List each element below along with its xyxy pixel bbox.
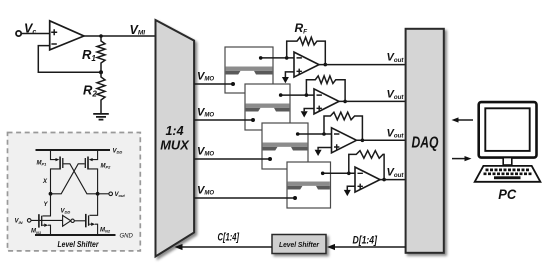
feedback resistor RF3 [324, 112, 362, 140]
ground stub A1 [285, 72, 294, 77]
feedback resistor RF2 [306, 76, 345, 102]
svg-text:GND: GND [120, 233, 134, 239]
svg-text:1:4: 1:4 [165, 124, 183, 138]
wire left node down to MN1 [43, 194, 51, 216]
GND rail [35, 234, 116, 236]
transistor MP2 [85, 150, 97, 194]
node A1 output [324, 63, 328, 67]
wire A1 output to DAQ [319, 64, 406, 66]
svg-text:MP2: MP2 [101, 163, 112, 169]
wire VIN to MN1 gate and inverter [31, 219, 62, 221]
inverter [63, 215, 85, 226]
wire input to op-amp [21, 33, 50, 35]
node A3 output [361, 139, 365, 143]
wire to Vout terminal [98, 193, 109, 195]
memristor device M2 [245, 84, 290, 130]
node Vout dot [96, 192, 100, 196]
ground symbol [93, 114, 109, 120]
DAQ block [406, 29, 444, 253]
inset labels [15, 148, 134, 249]
node A2 output [343, 100, 347, 104]
svg-text:PC: PC [498, 187, 516, 202]
wire M4 to op-amp A4 [323, 172, 355, 174]
level shifter inset dashed box [8, 133, 141, 251]
input terminal Vc [16, 31, 21, 36]
transistor MN2 [86, 214, 98, 235]
memristor device M4 [287, 162, 331, 208]
svg-text:MP1: MP1 [37, 161, 48, 167]
transistor MN1 [39, 214, 51, 235]
PC keyboard [475, 166, 541, 182]
node X dot [49, 192, 53, 196]
svg-text:DAQ: DAQ [412, 134, 439, 151]
wire M3 to op-amp A3 [298, 133, 332, 135]
wire A2 output to DAQ [339, 100, 406, 102]
transistor MP1 [51, 150, 63, 194]
svg-text:VDD: VDD [61, 209, 71, 215]
wire A4 output to DAQ [380, 179, 406, 181]
level shifter box [272, 235, 326, 254]
svg-text:MN2: MN2 [100, 228, 111, 234]
svg-text:VIN: VIN [15, 219, 23, 225]
wire D[1:4] DAQ to level shifter [330, 246, 406, 248]
VDD rail [36, 149, 111, 151]
cross-coupling wire MP2 gate to left node [51, 164, 85, 194]
svg-text:Level Shifter: Level Shifter [279, 240, 320, 249]
wire VMO3 MUX to M3 [194, 158, 270, 160]
wire feedback from minus input [38, 46, 101, 73]
op-amp U1 [50, 21, 84, 50]
op-amp A1 [294, 52, 319, 77]
svg-text:C[1:4]: C[1:4] [218, 232, 240, 244]
op-amp A4 [355, 167, 380, 192]
wire M2 to op-amp A2 [281, 94, 314, 96]
wire VMO2 MUX to M2 [194, 119, 253, 121]
Vout terminal circle [109, 192, 113, 196]
svg-text:D[1:4]: D[1:4] [353, 235, 378, 247]
MUX 1:4 block [156, 20, 195, 257]
memristor device M1 [225, 47, 273, 93]
arrow PC to DAQ [457, 119, 473, 121]
arrow DAQ to PC [452, 158, 466, 160]
wire A3 output to DAQ [357, 139, 406, 141]
node junction R1/R2 [99, 70, 103, 74]
feedback resistor RF1 [287, 37, 326, 64]
PC stand [503, 158, 512, 165]
memristor device M3 [262, 123, 308, 169]
ground stub A2 [304, 109, 314, 112]
svg-text:Vout: Vout [115, 192, 126, 198]
wire right node down to MN2 [90, 194, 98, 216]
wire op-amp output to MUX, node VMI [84, 35, 156, 37]
wire VMO1 MUX to M1 [194, 83, 233, 85]
node A4 output [382, 178, 386, 182]
feedback resistor RF4 [349, 151, 384, 180]
op-amp A3 [332, 128, 357, 153]
ground stub A3 [318, 148, 331, 150]
cross-coupling wire MP1 gate to right node [64, 164, 98, 194]
node junction R1 top [99, 34, 103, 38]
ground stub A4 [347, 186, 355, 190]
wire C[1:4] level shifter to MUX [178, 246, 272, 248]
PC monitor [479, 102, 537, 158]
resistor R1 [97, 36, 105, 72]
wire VMO4 MUX to M4 [194, 197, 295, 199]
VIN terminal circle [27, 219, 31, 223]
svg-text:VDD: VDD [113, 148, 123, 154]
svg-text:Level Shifter: Level Shifter [58, 239, 100, 249]
svg-text:MN1: MN1 [31, 229, 42, 235]
op-amp A2 [314, 89, 339, 114]
wire M1 to op-amp A1 [261, 57, 294, 59]
resistor R2 [97, 72, 105, 113]
svg-text:MUX: MUX [160, 138, 189, 152]
